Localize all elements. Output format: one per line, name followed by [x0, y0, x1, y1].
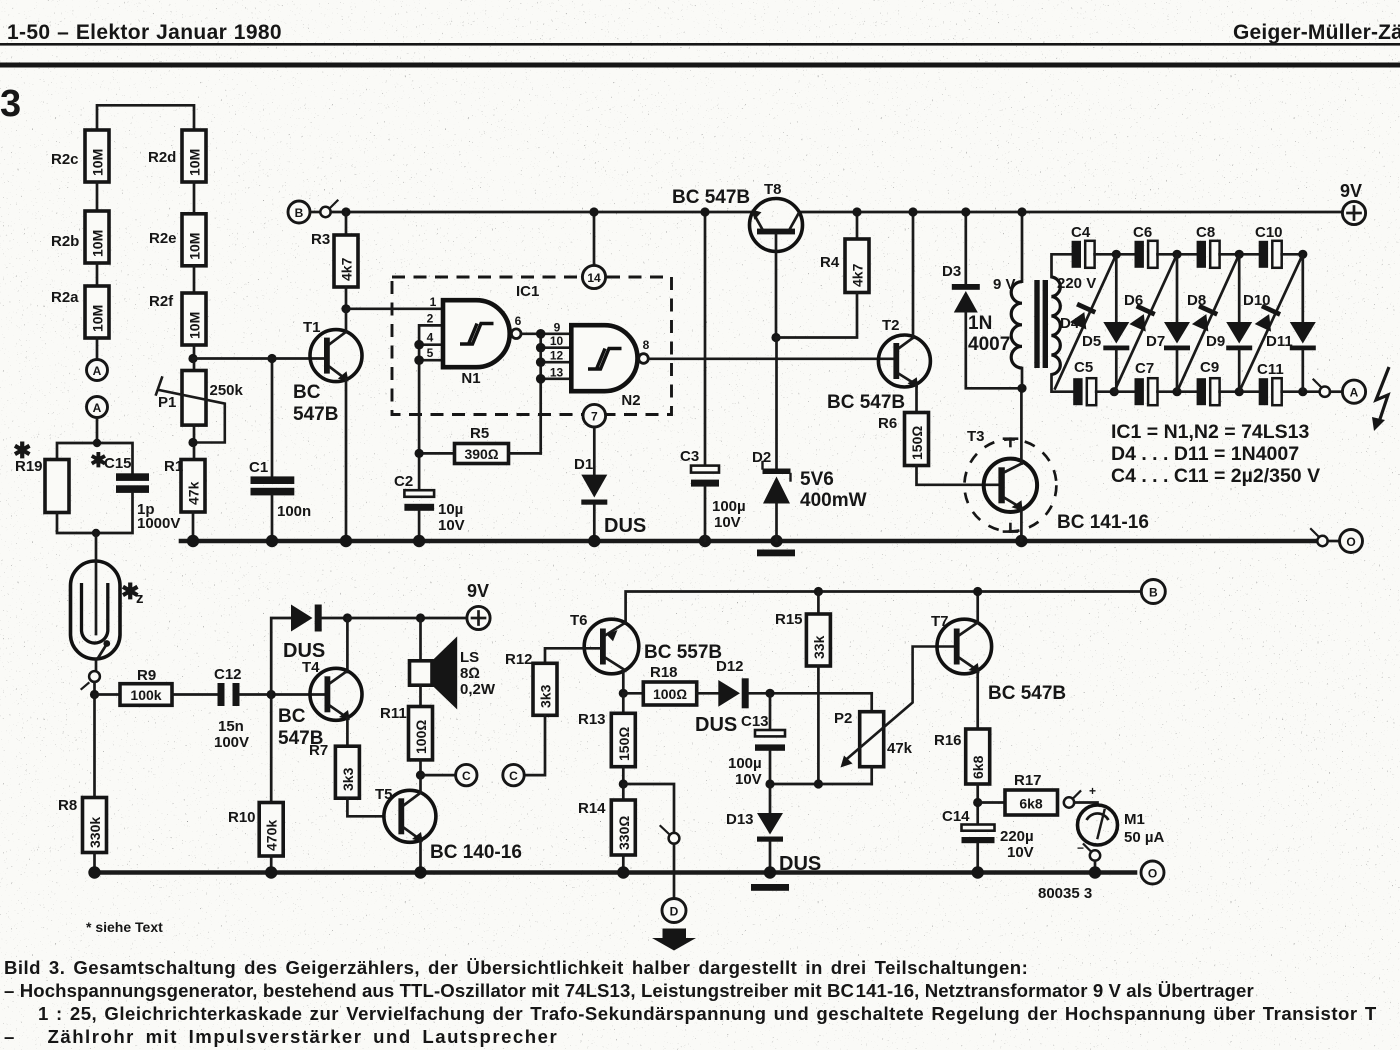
NAND Schmitt gate N1	[427, 295, 522, 387]
svg-text:10M: 10M	[90, 230, 106, 257]
wire	[96, 263, 99, 286]
svg-text:470k: 470k	[264, 820, 280, 851]
svg-text:10V: 10V	[438, 517, 465, 534]
svg-text:D8: D8	[1187, 292, 1206, 309]
wire R1 to 0V bus	[192, 512, 195, 541]
transistor T4 BC547B	[278, 618, 362, 749]
junction pins 4,5	[414, 340, 424, 350]
svg-text:6: 6	[515, 314, 522, 328]
svg-text:C15: C15	[104, 455, 132, 472]
svg-text:– Hochspannungsgenerator, best: – Hochspannungsgenerator, bestehend aus …	[4, 980, 1254, 1001]
wire node A to R19/C15	[57, 418, 133, 474]
svg-text:47k: 47k	[887, 740, 913, 757]
diode D11 (vertical)	[1266, 254, 1316, 391]
svg-text:–: –	[4, 1026, 14, 1047]
diode D13 DUS	[726, 784, 821, 875]
resistor R4 4k7	[776, 207, 869, 337]
terminal D	[662, 899, 686, 923]
svg-text:IC1 = N1,N2 = 74LS13: IC1 = N1,N2 = 74LS13	[1111, 421, 1310, 443]
wire N1 out to N2 inputs	[521, 334, 571, 454]
node LS branch	[416, 613, 425, 622]
diode D7 (vertical)	[1146, 254, 1190, 391]
capacitor C7	[1135, 360, 1158, 405]
svg-text:9: 9	[554, 321, 561, 335]
svg-text:50 µA: 50 µA	[1124, 829, 1164, 846]
header thin rule	[0, 43, 1400, 46]
connector at A output	[1320, 387, 1330, 397]
svg-text:R2a: R2a	[51, 289, 79, 306]
svg-text:400mW: 400mW	[800, 490, 867, 511]
svg-text:C3: C3	[680, 448, 699, 465]
svg-text:1-50 – Elektor Januar 1980: 1-50 – Elektor Januar 1980	[7, 21, 282, 44]
wire to R9/R8 node	[93, 682, 96, 695]
svg-text:M1: M1	[1124, 811, 1145, 828]
wire	[1095, 253, 1135, 256]
ground bar below 0V bus (under D2)	[757, 550, 795, 557]
capacitor C9	[1197, 359, 1220, 405]
svg-text:150Ω: 150Ω	[616, 727, 632, 761]
svg-text:8: 8	[643, 338, 650, 352]
svg-text:+: +	[1089, 784, 1096, 798]
resistor R19 (siehe Text)	[15, 458, 69, 513]
svg-text:4: 4	[427, 331, 434, 345]
diode D6 (diagonal)	[1114, 254, 1177, 391]
resistor R2f	[149, 293, 206, 345]
svg-text:D10: D10	[1243, 292, 1271, 309]
IC1 dashed box	[392, 277, 672, 415]
diode D4 (diagonal)	[1055, 254, 1116, 388]
svg-text:10µ: 10µ	[438, 501, 463, 518]
svg-text:BC: BC	[293, 382, 321, 403]
node R11/T5 collector/C	[416, 771, 425, 780]
svg-text:D12: D12	[716, 658, 744, 675]
junction: DUS/R10 branch	[267, 690, 276, 699]
svg-text:BC 547B: BC 547B	[988, 683, 1066, 704]
svg-text:10M: 10M	[187, 312, 203, 339]
svg-text:330Ω: 330Ω	[616, 816, 632, 850]
wire secondary bottom to cascade	[1052, 375, 1074, 392]
svg-text:1N: 1N	[968, 313, 992, 334]
connector below M1	[1090, 850, 1100, 860]
svg-text:D5: D5	[1082, 333, 1101, 350]
svg-text:10V: 10V	[1007, 844, 1034, 861]
svg-text:220 V: 220 V	[1057, 275, 1096, 292]
svg-text:A: A	[93, 364, 102, 378]
top row nodes	[1112, 250, 1121, 259]
svg-text:D1: D1	[574, 456, 593, 473]
geiger tube Z (counter tube)	[71, 533, 144, 659]
svg-text:R17: R17	[1014, 772, 1042, 789]
svg-text:A: A	[93, 401, 102, 415]
wire	[1158, 253, 1197, 256]
svg-text:C: C	[462, 769, 471, 783]
svg-text:C1: C1	[249, 459, 268, 476]
svg-text:Geiger-Müller-Zäh: Geiger-Müller-Zäh	[1233, 21, 1400, 44]
svg-text:10M: 10M	[187, 149, 203, 176]
svg-text:T1: T1	[303, 319, 321, 336]
svg-text:Bild 3. Gesamtschaltung des Ge: Bild 3. Gesamtschaltung des Geigerzähler…	[4, 957, 1028, 978]
transistor T5 BC140-16	[375, 775, 522, 872]
svg-text:C14: C14	[942, 808, 970, 825]
svg-text:6k8: 6k8	[970, 755, 986, 779]
node R16/R17/C14	[973, 798, 982, 807]
0V bus (upper)	[181, 539, 1316, 544]
svg-text:8Ω: 8Ω	[460, 665, 480, 682]
diode D12 DUS	[695, 658, 872, 736]
wire T1 base	[193, 357, 325, 360]
resistor R2c	[51, 130, 109, 182]
resistor R3 4k7	[311, 212, 358, 287]
svg-text:150Ω: 150Ω	[909, 426, 925, 460]
svg-text:15n: 15n	[218, 718, 244, 735]
svg-text:9V: 9V	[467, 581, 489, 601]
svg-text:100µ: 100µ	[712, 498, 746, 515]
capacitor C6	[1133, 224, 1158, 268]
capacitor C10	[1255, 224, 1283, 268]
wires pins 2,4,5	[419, 325, 443, 490]
svg-text:R11: R11	[380, 705, 407, 722]
junctions N2 input bus	[536, 329, 546, 339]
resistor R2e	[149, 214, 206, 266]
svg-text:R13: R13	[578, 711, 606, 728]
transistor T7 BC547B	[931, 587, 1066, 729]
resistor R2a	[51, 286, 109, 338]
terminal B (right)	[1141, 580, 1165, 604]
diode DUS (T4 collector clamp)	[283, 605, 347, 663]
svg-text:C9: C9	[1200, 359, 1219, 376]
terminal A (ladder output)	[87, 360, 108, 381]
svg-text:D6: D6	[1124, 292, 1143, 309]
wire: supply rail B-side (y212)	[331, 211, 753, 214]
transistor T1 BC547B	[293, 309, 362, 541]
junction C1 on T1 base wire	[267, 354, 276, 363]
svg-text:T4: T4	[302, 659, 320, 676]
svg-text:547B: 547B	[293, 404, 338, 425]
svg-text:D11: D11	[1266, 333, 1293, 350]
svg-text:R6: R6	[878, 415, 897, 432]
pin 14 supply	[582, 212, 605, 289]
node P1 wiper / R1	[188, 438, 197, 447]
transistor T6 BC557B	[570, 612, 722, 693]
svg-text:* siehe Text: * siehe Text	[86, 919, 163, 935]
wire R9 to C12	[172, 693, 218, 696]
svg-text:D3: D3	[942, 263, 961, 280]
svg-text:R1: R1	[164, 458, 183, 475]
header thick rule	[0, 63, 1400, 68]
svg-text:220µ: 220µ	[1000, 828, 1034, 845]
connector below tube	[95, 659, 98, 671]
svg-text:R12: R12	[505, 651, 533, 668]
svg-text:BC 140-16: BC 140-16	[430, 842, 522, 863]
svg-text:100Ω: 100Ω	[413, 720, 429, 754]
wire	[96, 182, 99, 211]
wires to bottom node	[57, 493, 133, 533]
svg-text:C13: C13	[741, 713, 769, 730]
diode D8 (diagonal)	[1177, 254, 1239, 391]
transistor T8 BC547B (series regulator)	[672, 181, 803, 338]
wire	[1158, 390, 1197, 393]
svg-text:9V: 9V	[1340, 181, 1362, 201]
wire secondary top to cascade	[1052, 254, 1072, 277]
wire B line (y591.5)	[626, 592, 1142, 624]
svg-text:R8: R8	[58, 797, 77, 814]
diode D10 (diagonal)	[1239, 254, 1303, 391]
svg-text:D9: D9	[1206, 333, 1225, 350]
resistor R7 3k3	[309, 742, 384, 816]
svg-text:T3: T3	[967, 428, 985, 445]
svg-text:O: O	[1346, 535, 1355, 549]
resistor R1 47k	[164, 458, 205, 512]
resistor R14 330R	[578, 784, 635, 873]
terminal +9V (top right)	[1340, 181, 1366, 225]
resistor R16 6k8	[934, 729, 990, 825]
svg-text:R15: R15	[775, 611, 803, 628]
svg-text:C8: C8	[1196, 224, 1215, 241]
svg-text:1 : 25, Gleichrichterkaskade z: 1 : 25, Gleichrichterkaskade zur Verviel…	[38, 1003, 1377, 1024]
capacitor C5	[1073, 359, 1096, 405]
transformer 9V:220V	[993, 207, 1096, 388]
potentiometer P1 250k	[156, 359, 244, 460]
svg-text:3k3: 3k3	[538, 684, 554, 708]
svg-text:R14: R14	[578, 800, 606, 817]
svg-text:T8: T8	[764, 181, 782, 198]
svg-text:C: C	[509, 769, 518, 783]
svg-text:10M: 10M	[90, 305, 106, 332]
wire C12 to T4 base	[240, 693, 325, 696]
svg-text:10M: 10M	[187, 233, 203, 260]
node R3/rail	[341, 207, 350, 216]
svg-text:R16: R16	[934, 732, 962, 749]
svg-text:R5: R5	[470, 425, 489, 442]
svg-text:R2f: R2f	[149, 293, 174, 310]
svg-text:4007: 4007	[968, 334, 1010, 355]
resistor R10 470k	[228, 695, 283, 873]
terminal C (left)	[456, 764, 477, 785]
svg-text:14: 14	[587, 271, 601, 285]
svg-text:330k: 330k	[87, 817, 103, 848]
svg-text:A: A	[1350, 386, 1359, 400]
node trafo primary / D3 / T3 collector	[1017, 384, 1026, 393]
potentiometer P2 47k	[834, 647, 954, 785]
resistor R11 100R	[380, 685, 433, 775]
svg-text:3k3: 3k3	[340, 767, 356, 791]
svg-text:5: 5	[427, 346, 434, 360]
svg-text:C11: C11	[1257, 361, 1284, 378]
svg-text:B: B	[1149, 586, 1158, 600]
svg-text:IC1: IC1	[516, 283, 539, 300]
ground bar below bus (under D13)	[751, 884, 789, 891]
transistor T2 BC547B	[827, 207, 930, 413]
bottom row nodes	[1110, 387, 1119, 396]
resistor R2b	[51, 211, 109, 263]
node DUS/T4 collector	[343, 613, 352, 622]
node D12/C13	[765, 689, 774, 698]
wire	[1220, 390, 1259, 393]
resistor R9 100k	[95, 667, 173, 705]
node pin1/R3/T1	[341, 304, 350, 313]
svg-text:1: 1	[430, 295, 437, 309]
svg-text:10V: 10V	[714, 514, 741, 531]
svg-text:R2b: R2b	[51, 233, 79, 250]
terminal B (top left)	[288, 201, 310, 223]
svg-text:13: 13	[550, 365, 564, 379]
svg-text:D7: D7	[1146, 333, 1165, 350]
svg-text:100k: 100k	[130, 687, 161, 703]
capacitor C8	[1196, 224, 1220, 268]
svg-text:R4: R4	[820, 254, 840, 271]
svg-text:10M: 10M	[90, 149, 106, 176]
svg-text:2: 2	[427, 311, 434, 325]
capacitor C4	[1071, 224, 1095, 268]
svg-text:10: 10	[550, 334, 564, 348]
svg-text:R3: R3	[311, 231, 330, 248]
svg-text:C7: C7	[1135, 360, 1154, 377]
svg-text:R2e: R2e	[149, 230, 177, 247]
arrow below D	[652, 929, 696, 951]
connector after R17	[1064, 797, 1074, 807]
wire: top link of R2 ladder	[97, 105, 194, 130]
NAND Schmitt gate N2	[550, 321, 650, 410]
svg-text:C6: C6	[1133, 224, 1152, 241]
terminal O (upper right)	[1340, 530, 1363, 553]
svg-text:Zählrohr mit Impulsverstärker: Zählrohr mit Impulsverstärker und Lautsp…	[48, 1026, 559, 1047]
svg-text:O: O	[1148, 867, 1157, 881]
svg-text:P1: P1	[158, 394, 176, 411]
node: R2f / P1 / T1 base	[188, 354, 197, 363]
diode D1 DUS	[574, 456, 646, 541]
node R13/R14/switch	[619, 779, 628, 788]
resistor R6 150R	[878, 413, 998, 485]
resistor R13 150R	[578, 693, 635, 784]
wire to reset switch and D terminal	[623, 784, 674, 833]
node	[93, 439, 101, 447]
svg-text:T7: T7	[931, 613, 949, 630]
svg-text:R2c: R2c	[51, 151, 79, 168]
svg-text:100V: 100V	[214, 734, 249, 751]
terminal O (lower right)	[1141, 861, 1164, 884]
svg-text:BC 547B: BC 547B	[672, 187, 750, 208]
terminal A (HV output)	[1342, 380, 1365, 403]
svg-text:390Ω: 390Ω	[464, 446, 498, 462]
capacitor C2 10u/10V	[394, 473, 465, 541]
capacitor C1 100n	[249, 359, 311, 542]
svg-text:12: 12	[550, 349, 564, 363]
resistor R8 330k	[58, 797, 107, 853]
diode D5 (vertical)	[1082, 254, 1129, 391]
capacitor C3 100u/10V	[680, 207, 746, 541]
connector at upper O terminal	[1317, 536, 1327, 546]
wire R2f to node	[193, 345, 196, 359]
svg-text:T2: T2	[882, 317, 900, 334]
wire	[193, 182, 196, 214]
wire C13/P2 bottom link	[770, 783, 872, 786]
wire	[1220, 253, 1259, 256]
svg-text:250k: 250k	[210, 382, 244, 399]
svg-text:9 V: 9 V	[993, 276, 1016, 293]
svg-text:BC 557B: BC 557B	[644, 642, 722, 663]
wire to A output	[1282, 390, 1320, 393]
svg-text:R18: R18	[650, 664, 678, 681]
svg-text:6k8: 6k8	[1019, 796, 1043, 812]
capacitor C12 15n/100V	[214, 666, 249, 751]
svg-text:C2: C2	[394, 473, 413, 490]
svg-text:R7: R7	[309, 742, 328, 759]
svg-text:4k7: 4k7	[339, 257, 355, 281]
wire: supply rail 9V-side through T8 to 9V terminal	[799, 211, 1342, 214]
node above tube	[92, 529, 100, 537]
resistor R18 100R	[623, 664, 718, 705]
svg-text:C5: C5	[1074, 359, 1093, 376]
junction R5/C2	[415, 449, 424, 458]
node T6 collector / R18 / R13	[619, 689, 628, 698]
svg-text:80035 3: 80035 3	[1038, 885, 1092, 902]
resistor R15 33k	[775, 587, 830, 784]
svg-text:B: B	[295, 206, 304, 220]
svg-text:C12: C12	[214, 666, 242, 683]
svg-text:N2: N2	[621, 392, 640, 409]
svg-text:N1: N1	[461, 370, 480, 387]
svg-text:BC: BC	[278, 706, 306, 727]
svg-text:−: −	[1077, 841, 1084, 855]
svg-text:100Ω: 100Ω	[653, 686, 687, 702]
terminal A (to quench network)	[87, 397, 108, 418]
svg-text:3: 3	[0, 83, 21, 125]
svg-text:C4 . . . C11 = 2µ2/350 V: C4 . . . C11 = 2µ2/350 V	[1111, 465, 1320, 487]
wire	[193, 266, 196, 293]
wire DUS branch up from T4 base node	[271, 618, 291, 695]
wire	[96, 338, 99, 360]
wire	[1096, 390, 1134, 393]
svg-text:100µ: 100µ	[728, 755, 762, 772]
svg-text:0,2W: 0,2W	[460, 681, 496, 698]
svg-text:C4: C4	[1071, 224, 1091, 241]
svg-text:7: 7	[591, 410, 598, 424]
resistor R5 390R	[419, 425, 541, 464]
svg-text:D13: D13	[726, 811, 754, 828]
wire R8 down	[93, 695, 96, 798]
wire N2 output (pin 8) to T2 base	[648, 357, 893, 360]
svg-text:T6: T6	[570, 612, 588, 629]
svg-text:C10: C10	[1255, 224, 1283, 241]
resistor R2d	[148, 130, 206, 182]
svg-text:T5: T5	[375, 786, 393, 803]
transistor T3 BC141-16 (with case circle)	[964, 388, 1148, 541]
svg-text:5V6: 5V6	[800, 469, 834, 490]
diode D3 1N4007 (flyback)	[942, 207, 1022, 388]
svg-text:R9: R9	[137, 667, 156, 684]
capacitor C15 1p/1000V	[90, 450, 180, 532]
capacitor C14 220u/10V	[942, 808, 1034, 873]
svg-text:BC 141-16: BC 141-16	[1057, 512, 1149, 533]
svg-text:4k7: 4k7	[850, 263, 866, 287]
svg-text:1000V: 1000V	[137, 515, 180, 532]
capacitor C13 100u/10V	[728, 693, 785, 788]
svg-text:10V: 10V	[735, 771, 762, 788]
terminal +9V (speaker supply)	[467, 581, 490, 630]
wire R8 to ground bus	[93, 853, 96, 873]
wire to +9V terminal	[347, 617, 467, 620]
svg-text:DUS: DUS	[695, 714, 737, 736]
node	[90, 690, 99, 699]
resistor R17 6k8	[978, 772, 1058, 815]
svg-text:P2: P2	[834, 710, 852, 727]
svg-text:33k: 33k	[811, 635, 827, 659]
svg-text:R19: R19	[15, 458, 43, 475]
meter M1 50uA	[1077, 784, 1164, 855]
wire R3 to T1 collector / pin1 node	[345, 287, 348, 309]
loudspeaker LS 8R 0.2W	[410, 618, 496, 710]
zener D2 5V6 400mW	[752, 338, 867, 542]
